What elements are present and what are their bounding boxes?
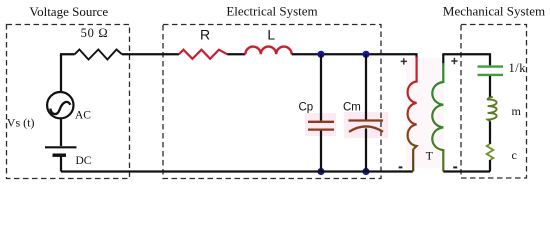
resistor R (red zigzag) [179,50,227,59]
battery DC short plate [53,153,67,156]
pink highlight behind capacitor Cm [344,112,388,138]
svg-text:R: R [200,27,210,43]
svg-text:m: m [512,104,522,118]
plus sign secondary [451,58,457,64]
plus sign primary [401,58,407,64]
wire: m to c [489,122,491,145]
svg-text:DC: DC [76,155,92,167]
node dot top Cm [362,51,369,58]
pink highlight behind capacitor Cp [305,113,336,136]
wire: battery to bottom rail [60,157,62,172]
svg-text:L: L [267,27,275,43]
node dot bottom Cp [317,168,324,175]
svg-text:Cm: Cm [343,102,361,114]
svg-text:Electrical System: Electrical System [226,4,317,19]
svg-text:Cp: Cp [299,102,314,114]
wire: 1/k to m [489,76,491,98]
AC source circle [47,92,73,118]
capacitor 1/k plates (green) [478,67,504,75]
wire: Cm to bottom [365,128,367,171]
bottom rail wire (electrical) [61,170,413,172]
transformer secondary coil (green) [432,63,443,172]
electrical system dashed box [163,25,381,179]
mechanical system dashed box [461,25,527,179]
resistor 50 ohm (zigzag) [75,50,122,60]
resistor c (green zigzag) [487,144,494,160]
bottom rail wire mechanical [443,170,490,172]
svg-text:50 Ω: 50 Ω [81,26,109,40]
wire: left riser from AC source to top rail [61,54,75,92]
inductor m (green loops) [488,97,497,122]
wire: c to bottom rail [489,160,491,172]
wire: top rail corner into transformer primary [416,54,417,58]
wire: L to transformer (top rail) [292,53,417,55]
node dot bottom Cm [362,168,369,175]
capacitor Cp plates [308,122,334,130]
wire: top to Cm [365,54,367,119]
wire: Cp to bottom [320,131,322,172]
inductor L (red humps) [245,47,291,55]
svg-text:1/k: 1/k [509,61,527,75]
wire: secondary top corner [442,54,444,64]
wire: AC source to battery [60,118,62,146]
capacitor Cm straight plate [349,119,384,121]
sine wave inside AC source [50,102,70,114]
svg-text:Voltage Source: Voltage Source [29,4,108,19]
voltage source dashed box [7,25,130,179]
svg-text:Vs (t): Vs (t) [7,116,35,130]
node dot top Cp [317,51,324,58]
minus sign primary [399,166,403,168]
capacitor Cm curved plate [349,126,383,131]
svg-text:c: c [512,148,517,162]
top rail wire mechanical [442,54,490,65]
battery DC long plate [45,146,77,148]
svg-text:AC: AC [75,110,91,122]
minus sign secondary [453,166,457,168]
pink highlight behind transformer [406,58,444,168]
wire: R to L [227,53,245,55]
wire: 50ohm to R [122,53,179,55]
svg-text:T: T [426,149,434,163]
svg-text:Mechanical System: Mechanical System [443,4,545,19]
transformer primary coil (red to brown) [408,57,417,172]
wire: top to Cp [320,54,322,121]
